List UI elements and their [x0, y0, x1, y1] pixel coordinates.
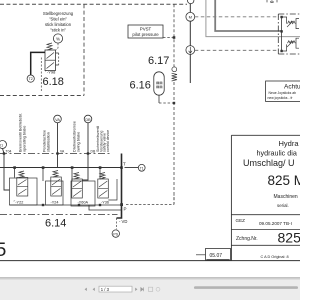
spring of valve 6.18	[47, 43, 52, 50]
wire main supply vertical line with gauge circles	[188, 0, 194, 83]
svg-text:new joysticks - fr: new joysticks - fr	[268, 96, 294, 100]
value label CAD original note	[261, 255, 289, 259]
svg-text:6.14: 6.14	[45, 218, 66, 230]
wire 6.16 capsule drain to pilot trunk	[159, 95, 175, 104]
svg-text:-Y36: -Y36	[101, 200, 109, 204]
node port circle VA	[54, 115, 62, 123]
node joystick unit dash-dot box right edge	[278, 14, 301, 54]
svg-text:Hydra: Hydra	[279, 139, 300, 148]
viewer scrollbar thumb	[194, 286, 298, 289]
port label P	[124, 207, 127, 212]
value label date row	[259, 221, 292, 226]
wire joystick internal manifold vertical	[280, 16, 282, 52]
node port circle DB	[84, 115, 92, 123]
svg-text:Stellbegrenzung: Stellbegrenzung	[43, 11, 74, 16]
node enclosure box 6.18 (dashed)	[0, 4, 84, 95]
value label title line1 Hydraulikschema	[279, 139, 300, 148]
value label model 825 M	[268, 173, 306, 188]
svg-text:5: 5	[0, 239, 7, 261]
viewer rotate icon	[149, 287, 153, 291]
value label vertical Betriebsbremse operating brake	[19, 113, 27, 152]
svg-text:pilot pressure: pilot pressure	[132, 32, 159, 37]
wire dashed pilot return to trunk	[126, 195, 174, 205]
node port circle T2	[27, 75, 34, 82]
svg-text:operating brake: operating brake	[23, 126, 27, 152]
svg-text:stick limitation: stick limitation	[45, 22, 72, 27]
svg-text:M: M	[189, 15, 192, 20]
value label solenoid -Y98	[45, 70, 56, 75]
svg-text:825 M: 825 M	[268, 173, 301, 188]
wire dashed PVST box to pilot trunk	[163, 37, 174, 39]
svg-text:P: P	[124, 207, 127, 212]
value label vertical Pendelachse stabilisation	[43, 130, 51, 152]
value label Zchng.Nr	[236, 236, 258, 242]
wire link to port T1	[125, 167, 139, 169]
viewer zoom icon	[156, 287, 160, 291]
port label VD	[119, 219, 127, 224]
wire chain line manifold lower boundary	[0, 214, 118, 216]
svg-text:1 / 3: 1 / 3	[101, 287, 110, 292]
component pump symbol cut at top edge	[267, 0, 277, 4]
wire VA drop	[56, 123, 58, 168]
port label DB small	[91, 150, 96, 154]
component gauge circle M on main line	[186, 12, 195, 21]
node PVST pilot pressure box	[128, 25, 163, 38]
wire heavy line valve 6.18 to port T2	[31, 52, 45, 75]
svg-text:C A D Original: 8: C A D Original: 8	[261, 255, 289, 259]
svg-text:DB: DB	[91, 150, 96, 154]
svg-text:▤▤: ▤▤	[156, 85, 162, 89]
wire T01 drop to valve 1	[3, 149, 10, 191]
svg-text:⌜-Y22: ⌜-Y22	[14, 200, 24, 205]
svg-text:T04: T04	[6, 149, 12, 153]
value label Stellbegrenzung text block	[43, 11, 74, 33]
svg-text:Umschlag/ U: Umschlag/ U	[243, 158, 295, 168]
port label T04	[6, 149, 12, 153]
value label title line3 Umschlag	[243, 158, 295, 168]
valve module 3 solenoid valve -Y60A	[71, 168, 95, 207]
wire chain line manifold upper boundary	[0, 153, 112, 155]
node title block frame	[231, 135, 300, 260]
wire dashed pilot from % circle to valve 6.18	[56, 43, 58, 50]
value label drawing number 825	[278, 230, 313, 246]
svg-text:T2: T2	[29, 77, 33, 81]
node Achtung note box	[266, 81, 302, 102]
svg-text:Achtu: Achtu	[284, 84, 300, 91]
viewer page edge shadow	[0, 277, 300, 279]
valve module 4 solenoid valve -Y36	[98, 168, 117, 205]
wire manifold step link valve3 to riser	[89, 205, 122, 210]
viewer page number field	[99, 286, 132, 292]
svg-text:VA: VA	[60, 150, 65, 154]
node port circle PS	[112, 230, 119, 237]
component percent-setpoint circle of 6.18	[53, 34, 62, 43]
value label GEZ	[236, 218, 246, 223]
svg-text:VA: VA	[55, 118, 60, 122]
wire dashed drop to PS	[116, 218, 118, 229]
svg-text:%: %	[56, 37, 60, 42]
svg-text:Zchng.Nr.: Zchng.Nr.	[236, 236, 258, 242]
valve 6.18 proportional pressure reducing valve body	[45, 50, 59, 71]
wire drawing page bottom border	[0, 260, 300, 262]
node port circle T01 at left edge	[0, 141, 7, 149]
svg-text:PS: PS	[113, 232, 118, 236]
viewer toolbar background	[0, 280, 300, 300]
wire gray return pipe thin L	[206, 0, 300, 37]
svg-text:-Y24: -Y24	[51, 200, 59, 204]
svg-text:DB: DB	[85, 118, 91, 122]
value label vertical Drehwerksbremse swing brake	[73, 121, 81, 152]
port label T	[123, 162, 126, 167]
wire dashed pilot drain of 6.18	[40, 58, 42, 93]
component gauge circle on main line lower	[186, 46, 195, 55]
svg-text:"stick in": "stick in"	[50, 28, 66, 33]
svg-text:stabilisation: stabilisation	[47, 132, 51, 152]
wire tank bus T	[0, 166, 123, 169]
svg-text:Maschinen: Maschinen	[274, 194, 298, 200]
node revision cell 05.07	[196, 249, 231, 261]
svg-text:swing brake: swing brake	[77, 132, 81, 152]
svg-text:09.05.2007 TB-I: 09.05.2007 TB-I	[259, 221, 292, 226]
component 6.16 accumulator capsule	[154, 72, 164, 95]
svg-text:6.18: 6.18	[43, 76, 64, 88]
svg-text:825.5: 825.5	[278, 230, 301, 246]
viewer nav prev button	[93, 288, 95, 291]
svg-text:control device: control device	[106, 130, 110, 152]
value label sheet number 5 at left margin	[0, 239, 7, 261]
svg-text:T01: T01	[0, 143, 3, 147]
svg-text:"Stiel ein": "Stiel ein"	[49, 17, 67, 22]
wire main riser T to P	[117, 154, 124, 219]
value label 6.16	[130, 80, 151, 92]
value label serial	[277, 203, 289, 208]
svg-text:-Y60A: -Y60A	[78, 200, 89, 204]
svg-text:Neue Joysticks ab: Neue Joysticks ab	[269, 91, 297, 95]
wire gray pressure pipe thick L	[215, 0, 281, 31]
value label 6.18	[43, 76, 64, 88]
value label title line2 hydraulic	[257, 149, 297, 158]
svg-text:⌜-Y98: ⌜-Y98	[45, 70, 56, 75]
wire DB drop	[82, 123, 89, 180]
value label 6.17	[148, 55, 169, 67]
svg-text:T: T	[123, 162, 126, 167]
valve module 2 solenoid valve -Y24	[43, 168, 63, 206]
value label vertical Sicherheitsventil safety valve	[96, 126, 110, 152]
value label 6.14	[45, 218, 66, 230]
resistor pressure reducer upper in joystick box	[282, 17, 299, 29]
wire dashed tap lower to joystick box	[195, 49, 279, 51]
svg-text:6.16: 6.16	[130, 80, 151, 92]
wire top dashed border of pilot-circuit enclosure	[0, 3, 187, 5]
svg-text:GEZ: GEZ	[236, 218, 246, 223]
svg-text:05.07: 05.07	[210, 253, 223, 259]
node port circle T1	[138, 164, 145, 171]
svg-text:- VD: - VD	[119, 219, 127, 224]
svg-text:T1: T1	[140, 167, 144, 171]
svg-text:6.17: 6.17	[148, 55, 169, 67]
wire dashed tap upper to joystick box	[195, 16, 279, 18]
port label VA small	[60, 150, 65, 154]
viewer nav next button	[135, 288, 137, 291]
svg-text:serial.: serial.	[277, 203, 289, 208]
resistor pressure reducer lower in joystick box	[282, 38, 299, 51]
wire pilot trunk vertical dashed line	[173, 4, 175, 204]
svg-text:PVST: PVST	[140, 27, 152, 32]
value label Maschinen-Nr	[274, 194, 298, 200]
component 6.17 check valve on pilot trunk	[172, 67, 177, 81]
svg-text:hydraulic dia: hydraulic dia	[257, 149, 297, 158]
valve module 1 solenoid valve -Y22	[10, 168, 38, 206]
wire pressure line P along valve bottoms	[10, 204, 122, 206]
junction on pilot trunk at PVST tap	[173, 36, 176, 39]
viewer nav last-page button	[141, 287, 144, 291]
viewer nav first-page button	[85, 288, 87, 291]
